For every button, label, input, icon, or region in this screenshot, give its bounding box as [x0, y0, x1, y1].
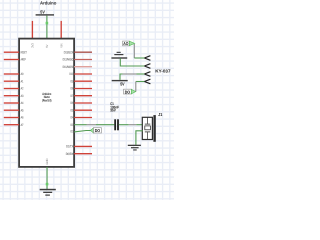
svg-text:AO: AO	[123, 41, 129, 46]
pin A5	[4, 108, 24, 112]
pin A1	[4, 79, 24, 83]
pin A3	[4, 94, 24, 98]
svg-text:DO: DO	[95, 128, 101, 133]
power symbol 5V (right)	[112, 80, 128, 87]
wire C1 to J1 (green-gray-green)	[119, 124, 143, 126]
svg-text:A2: A2	[21, 87, 24, 91]
svg-text:A0: A0	[21, 72, 24, 76]
KY-037 pin 1 arrow	[144, 56, 150, 61]
svg-text:5V: 5V	[120, 82, 125, 87]
svg-text:A1: A1	[21, 79, 24, 83]
svg-text:35V: 35V	[110, 109, 116, 113]
wire ground to KY-037 pin2	[120, 58, 144, 66]
pin A7	[4, 123, 24, 127]
IC U1 Arduino Nano body	[19, 39, 74, 167]
KY-037 pin 3 arrow	[144, 72, 150, 77]
wire KY-037 pin4 to DO flag	[136, 82, 145, 92]
pin D1/TX	[66, 145, 92, 149]
svg-text:3V3: 3V3	[31, 43, 35, 48]
svg-text:5V: 5V	[40, 9, 45, 14]
svg-text:J1: J1	[158, 112, 162, 117]
svg-text:5V: 5V	[45, 45, 49, 48]
wire D2 to DO flag	[74, 131, 91, 132]
pin D5	[71, 108, 93, 112]
svg-text:D12/MISO: D12/MISO	[63, 58, 74, 62]
pin VIN (top, unconnected)	[60, 21, 62, 39]
svg-text:Arduino: Arduino	[40, 1, 57, 6]
pin D13/SCK	[64, 50, 92, 54]
ground (KY-037 GND, flipped)	[111, 52, 127, 59]
svg-text:AREF: AREF	[21, 58, 26, 62]
svg-text:D9: D9	[71, 79, 74, 83]
pin D6	[71, 101, 93, 105]
svg-text:D1/TX: D1/TX	[66, 145, 74, 149]
ground (below J1)	[128, 145, 141, 151]
pin AREF	[4, 58, 26, 62]
svg-text:(Rev3.0): (Rev3.0)	[42, 98, 51, 102]
pin D12/MISO	[63, 58, 92, 62]
svg-text:D6: D6	[71, 101, 74, 105]
pin A6	[4, 116, 24, 120]
svg-text:D7: D7	[71, 94, 74, 98]
svg-text:VIN: VIN	[59, 43, 63, 47]
svg-text:DO: DO	[125, 89, 131, 94]
svg-text:A6: A6	[21, 116, 24, 120]
pin D9	[71, 79, 93, 83]
KY-037 pin 2 arrow	[144, 64, 150, 69]
svg-text:RESET: RESET	[21, 50, 27, 54]
wire 5V net to Nano 5V pin	[46, 16, 49, 39]
wire AO flag to KY-037 pin1	[134, 44, 144, 58]
net flag DO (right)	[124, 89, 136, 94]
pin D0/RX	[66, 152, 92, 156]
svg-text:A5: A5	[21, 108, 24, 112]
wire J1 pin2 to ground	[136, 131, 143, 145]
wire 5V to KY-037 pin3	[120, 74, 144, 80]
svg-text:D8: D8	[71, 87, 74, 91]
wire Nano GND to ground	[46, 167, 49, 190]
pin D8	[71, 87, 93, 91]
svg-text:D11/MOSI: D11/MOSI	[63, 65, 74, 69]
pin A2	[4, 87, 24, 91]
net flag AO	[123, 41, 135, 46]
pin 3V3 (top, unconnected)	[31, 21, 33, 39]
pin D10	[69, 72, 92, 76]
wire D3 to C1 (green-gray-green)	[74, 124, 114, 126]
piezo buzzer J1	[142, 115, 155, 142]
pin D4	[71, 116, 93, 120]
svg-text:D3: D3	[71, 123, 74, 127]
pin A4	[4, 101, 24, 105]
svg-text:D10: D10	[69, 72, 73, 76]
svg-text:GND: GND	[45, 158, 49, 165]
background grid	[0, 0, 174, 200]
net flag DO (left)	[91, 128, 102, 133]
svg-text:A3: A3	[21, 94, 24, 98]
KY-037 pin 4 arrow	[144, 79, 150, 84]
svg-text:D5: D5	[71, 108, 74, 112]
svg-text:KY-037: KY-037	[155, 68, 171, 73]
capacitor C1 value labels	[110, 102, 119, 113]
capacitor C1	[114, 119, 119, 130]
svg-text:D2: D2	[71, 130, 74, 134]
ground (Nano GND)	[40, 189, 56, 196]
pin RESET	[4, 50, 27, 54]
svg-text:A4: A4	[21, 101, 24, 105]
svg-text:D13/SCK: D13/SCK	[64, 50, 74, 54]
pin A0	[4, 72, 24, 76]
pin D7	[71, 94, 93, 98]
svg-text:A7: A7	[21, 123, 24, 127]
pin D11/MOSI	[63, 65, 92, 69]
svg-text:D4: D4	[71, 116, 74, 120]
svg-text:D0/RX: D0/RX	[66, 152, 74, 156]
power symbol 5V (top)	[36, 9, 54, 15]
